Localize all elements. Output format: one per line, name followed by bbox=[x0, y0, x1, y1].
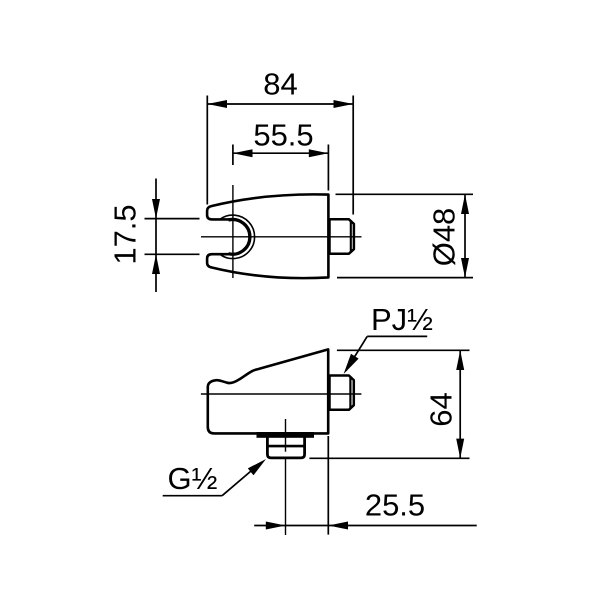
svg-text:Ø48: Ø48 bbox=[427, 208, 462, 267]
svg-text:17.5: 17.5 bbox=[108, 204, 143, 264]
svg-text:64: 64 bbox=[424, 392, 459, 426]
svg-text:84: 84 bbox=[263, 67, 297, 102]
svg-text:PJ½: PJ½ bbox=[371, 302, 433, 337]
svg-text:55.5: 55.5 bbox=[253, 118, 313, 153]
svg-text:G½: G½ bbox=[168, 461, 218, 496]
svg-text:25.5: 25.5 bbox=[365, 488, 425, 523]
